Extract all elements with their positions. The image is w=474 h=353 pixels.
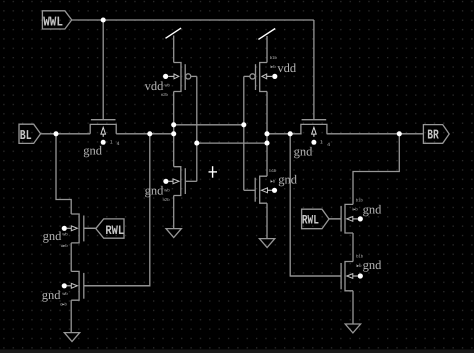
junction J7 xyxy=(241,122,246,127)
svg-text:wb: wb xyxy=(62,231,68,236)
wire WWL drop to left access gate xyxy=(102,20,104,120)
svg-text:wb: wb xyxy=(165,82,171,87)
svg-text:WWL: WWL xyxy=(43,15,63,30)
svg-text:gnd: gnd xyxy=(294,145,314,159)
wire BL branch down to read stack xyxy=(56,134,71,214)
svg-text:o▸b: o▸b xyxy=(60,301,67,306)
wire node B down to right read-stack gate xyxy=(290,134,341,276)
junction J10 xyxy=(288,131,293,136)
label gnd left pull-down bulk xyxy=(145,183,165,197)
ground symbol left pull-down xyxy=(166,229,181,238)
svg-text:gnd: gnd xyxy=(43,229,63,243)
transistor left pull-up PMOS xyxy=(163,63,197,92)
junction J11 xyxy=(397,131,402,136)
wire RWL right gate stub xyxy=(329,218,341,220)
wire node A from access to spine xyxy=(116,133,174,135)
tiny parameter annotations xyxy=(60,55,364,306)
label gnd right read pull-down bulk xyxy=(363,258,383,272)
junction J4 xyxy=(171,122,176,127)
vdd stub left xyxy=(173,36,175,63)
svg-text:BR: BR xyxy=(427,128,439,143)
wire node A vertical spine xyxy=(173,92,175,167)
svg-text:b1b: b1b xyxy=(356,197,364,202)
wire between left stack transistors xyxy=(70,243,72,272)
svg-text:BL: BL xyxy=(20,129,32,144)
svg-text:vdd: vdd xyxy=(277,61,297,75)
svg-text:wb: wb xyxy=(62,291,68,296)
wire cross-couple lower (left gate to node B) xyxy=(197,142,267,144)
wire node A down to read-stack gate xyxy=(84,134,150,286)
svg-text:i▸b: i▸b xyxy=(270,64,276,69)
wire right inverter gate vertical xyxy=(243,76,245,190)
svg-text:RWL: RWL xyxy=(105,223,124,238)
wire node B to right access transistor xyxy=(267,133,302,135)
junction J9 xyxy=(264,141,269,146)
wire right pull-down source to ground xyxy=(266,203,268,238)
junction J5 xyxy=(171,131,176,136)
svg-text:1: 1 xyxy=(110,139,113,145)
net flag RWL right xyxy=(302,209,329,229)
svg-text:b1b: b1b xyxy=(270,55,278,60)
vdd stub right xyxy=(266,36,268,63)
svg-text:n2b: n2b xyxy=(161,92,169,97)
label vdd left PMOS bulk xyxy=(145,79,165,93)
transistor right pull-up PMOS xyxy=(244,63,278,92)
svg-text:i▸b: i▸b xyxy=(352,206,358,211)
transistor right read-access NMOS (RWL) xyxy=(329,204,363,233)
svg-text:gnd: gnd xyxy=(145,183,165,197)
svg-text:gnd: gnd xyxy=(42,288,62,302)
svg-text:i▸b: i▸b xyxy=(356,263,362,268)
label gnd left read pull-down bulk xyxy=(42,288,62,302)
wire RWL left gate stub xyxy=(84,227,96,229)
junction J3 xyxy=(147,131,152,136)
transistor left read-access NMOS (RWL) xyxy=(62,214,96,243)
svg-text:gnd: gnd xyxy=(363,202,383,216)
wire right stack source to ground xyxy=(352,291,354,324)
ground symbol right pull-down xyxy=(259,239,274,248)
wire cross-couple upper (node A to right gate) xyxy=(174,124,244,126)
wire BL to left access transistor xyxy=(41,133,91,135)
power symbol vdd right (slash) xyxy=(258,29,275,40)
label gnd right access bulk xyxy=(294,145,314,159)
label gnd right pull-down bulk xyxy=(278,173,298,187)
svg-text:gnd: gnd xyxy=(83,144,103,158)
svg-text:4: 4 xyxy=(117,141,120,147)
wire left pull-down source to ground xyxy=(173,196,175,229)
junction J8 xyxy=(264,131,269,136)
svg-text:o▸b: o▸b xyxy=(61,243,68,248)
ground symbol right read stack xyxy=(345,324,360,333)
net flag BL xyxy=(19,124,41,144)
svg-text:1: 1 xyxy=(320,139,323,145)
wire node B vertical spine xyxy=(266,92,268,177)
wire right access to BR xyxy=(327,133,424,135)
wire BR branch down to right read stack xyxy=(353,134,399,205)
wire left inverter gate vertical xyxy=(196,76,198,181)
label vdd right PMOS bulk xyxy=(277,61,297,75)
svg-text:RWL: RWL xyxy=(302,213,319,228)
net flag WWL xyxy=(42,11,71,31)
junction J2 xyxy=(53,131,58,136)
transistor right read pull-down NMOS xyxy=(290,262,363,291)
ground symbol left read stack xyxy=(64,333,79,342)
transistor left read pull-down NMOS xyxy=(62,271,150,300)
wire WWL horizontal rail xyxy=(72,19,314,21)
net flag RWL left xyxy=(96,219,125,238)
wire left stack source to ground xyxy=(70,300,72,332)
wire between right stack transistors xyxy=(352,233,354,262)
svg-text:wb: wb xyxy=(164,187,170,192)
junction J6 xyxy=(194,141,199,146)
svg-text:n2b: n2b xyxy=(163,197,171,202)
svg-text:4: 4 xyxy=(327,142,330,148)
svg-text:gnd: gnd xyxy=(363,258,383,272)
net flag BR xyxy=(423,125,449,144)
cursor crosshair xyxy=(209,166,218,178)
svg-text:b1b: b1b xyxy=(356,253,364,258)
label gnd right read-access bulk xyxy=(363,202,383,216)
svg-text:b1b: b1b xyxy=(269,168,277,173)
label gnd left read-access bulk xyxy=(43,229,63,243)
transistor right pull-down NMOS xyxy=(244,176,277,203)
svg-text:gnd: gnd xyxy=(278,173,298,187)
svg-text:i▸b: i▸b xyxy=(270,179,276,184)
transistor left pull-down NMOS xyxy=(163,167,197,196)
wire WWL drop to right access gate xyxy=(313,20,315,120)
power symbol vdd left (slash) xyxy=(166,28,182,38)
transistor right access NMOS (WWL pass gate) xyxy=(301,120,327,145)
transistor left access NMOS (WWL pass gate) xyxy=(90,120,116,145)
junction J1 xyxy=(101,17,106,22)
label gnd left access bulk xyxy=(83,144,103,158)
